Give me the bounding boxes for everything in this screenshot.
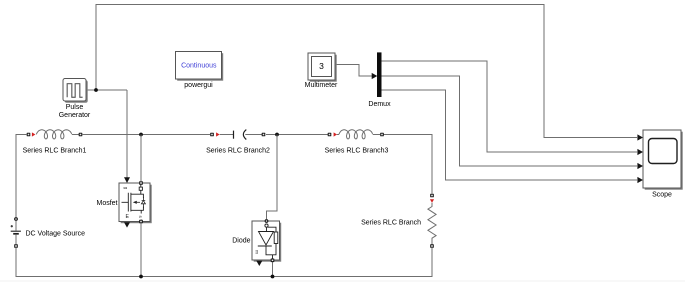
block: Demux bar: [377, 52, 382, 97]
wire: Diode cathode down to bottom rail: [272, 262, 274, 277]
component: Series RLC Branch3 (inductor): [328, 130, 384, 139]
block: Mosfet: [119, 181, 152, 223]
port: Mosfet source square and unconnected m arrow: [124, 220, 143, 228]
wire: down to Mosfet drain port: [140, 135, 142, 182]
node: junction row/Diode anode: [275, 133, 279, 137]
svg-text:Series RLC Branch: Series RLC Branch: [361, 220, 421, 227]
svg-text:Diode: Diode: [232, 238, 250, 245]
component: Series RLC Branch1 (inductor): [27, 130, 83, 139]
label: Demux: [368, 101, 391, 108]
label: DC Voltage Source: [26, 230, 86, 237]
svg-text:Series RLC Branch1: Series RLC Branch1: [23, 148, 87, 155]
wire: Demux out2 to Scope input 3: [381, 76, 643, 169]
wire: Pulse Generator output to gate-corner: [86, 89, 127, 91]
node: junction rail/Mosfet source: [139, 275, 143, 279]
label: Mosfet: [96, 200, 117, 207]
wire: Branch1 to Branch2: [83, 134, 211, 136]
svg-text:powergui: powergui: [184, 82, 213, 89]
wire: DC source + up to main row and to Series RLC Branch1: [16, 135, 27, 218]
svg-text:m: m: [254, 250, 259, 254]
component: Series RLC Branch (resistor): [428, 194, 436, 248]
wire: Branch2 to Branch3: [266, 134, 328, 136]
block: Diode: [252, 219, 281, 262]
node: junction rail/Diode cathode: [271, 275, 275, 279]
block: Pulse Generator: [63, 79, 88, 103]
component: Series RLC Branch2 (capacitor): [210, 130, 265, 140]
svg-text:Generator: Generator: [59, 112, 91, 119]
block: Multimeter: [308, 53, 337, 82]
svg-text:E: E: [125, 214, 129, 220]
block: Scope: [643, 130, 683, 190]
node: junction row/Mosfet drain: [139, 133, 143, 137]
label: powergui: [184, 82, 213, 89]
wire: down and jog to Diode anode: [267, 135, 278, 220]
wire: pulse signal up and across top to Scope input 1: [96, 5, 643, 141]
svg-text:Series RLC Branch3: Series RLC Branch3: [325, 148, 389, 155]
svg-text:DC Voltage Source: DC Voltage Source: [26, 230, 86, 237]
svg-text:Multimeter: Multimeter: [305, 82, 338, 89]
wire: gate wire down to Mosfet g input: [124, 90, 130, 183]
svg-text:Series RLC Branch2: Series RLC Branch2: [206, 148, 270, 155]
label: Series RLC Branch: [361, 220, 421, 227]
wire: Multimeter output to Demux input: [335, 65, 377, 80]
svg-text:Continuous: Continuous: [181, 62, 217, 69]
label: Series RLC Branch3: [325, 148, 389, 155]
label: Diode: [232, 238, 250, 245]
svg-text:Scope: Scope: [652, 192, 672, 199]
port: Diode cathode square and unconnected m arrow: [256, 259, 274, 267]
wire: Demux out1 to Scope input 2: [381, 61, 643, 155]
label: Series RLC Branch1: [23, 148, 87, 155]
node: junction at pulse generator output: [94, 88, 98, 92]
label: Scope: [652, 192, 672, 199]
svg-text:Demux: Demux: [368, 101, 391, 108]
label: Series RLC Branch2: [206, 148, 270, 155]
window edge strip at bottom: [0, 280, 685, 282]
component: DC Voltage Source (battery): [11, 217, 21, 248]
wire: Mosfet source down to bottom rail: [140, 223, 142, 277]
svg-text:g: g: [124, 187, 129, 190]
block: powergui (Continuous): [176, 52, 224, 81]
wire: Demux out3 to Scope input 4: [381, 90, 643, 183]
label: Multimeter: [305, 82, 338, 89]
svg-text:3: 3: [319, 61, 324, 71]
svg-text:Pulse: Pulse: [66, 104, 84, 111]
wire: bottom return rail: [16, 248, 432, 277]
svg-text:Mosfet: Mosfet: [96, 200, 117, 207]
wire: Branch3 to load corner and down to Series RLC Branch (R): [384, 135, 433, 194]
label: Pulse Generator: [59, 104, 91, 119]
